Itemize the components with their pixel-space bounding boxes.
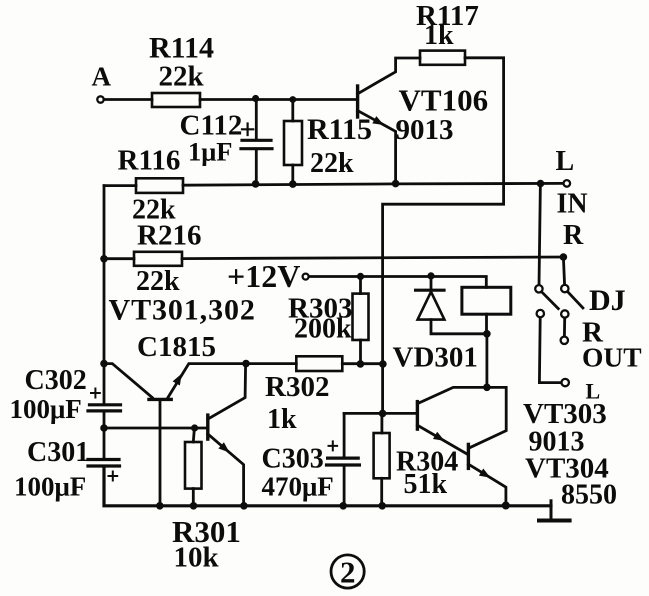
svg-text:R: R — [563, 220, 584, 251]
svg-text:R116: R116 — [118, 145, 181, 177]
svg-text:DJ: DJ — [589, 284, 626, 317]
svg-text:L: L — [556, 146, 575, 177]
svg-text:1μF: 1μF — [188, 137, 232, 167]
svg-text:R216: R216 — [137, 220, 201, 252]
svg-text:C301: C301 — [27, 437, 89, 468]
svg-text:10k: 10k — [174, 542, 220, 574]
svg-text:51k: 51k — [404, 469, 448, 500]
svg-text:8550: 8550 — [561, 480, 617, 511]
svg-text:R115: R115 — [307, 113, 372, 146]
svg-text:470μF: 470μF — [262, 472, 334, 502]
svg-text:100μF: 100μF — [10, 394, 82, 424]
svg-text:VD301: VD301 — [393, 342, 478, 374]
svg-text:+12V: +12V — [227, 258, 300, 294]
svg-text:22k: 22k — [159, 61, 205, 93]
svg-text:22k: 22k — [136, 266, 180, 297]
svg-text:IN: IN — [557, 189, 588, 220]
svg-text:1k: 1k — [424, 20, 454, 51]
svg-text:A: A — [92, 62, 112, 92]
svg-text:R302: R302 — [265, 371, 329, 403]
svg-text:C303: C303 — [262, 444, 324, 475]
svg-text:22k: 22k — [310, 148, 354, 179]
svg-text:VT303: VT303 — [523, 398, 607, 430]
svg-text:VT301,302: VT301,302 — [109, 294, 256, 327]
svg-text:VT106: VT106 — [399, 83, 489, 118]
svg-text:2: 2 — [340, 555, 356, 590]
svg-text:C1815: C1815 — [137, 331, 216, 363]
svg-text:C302: C302 — [25, 365, 87, 396]
svg-text:1k: 1k — [267, 404, 297, 435]
svg-text:9013: 9013 — [396, 114, 454, 146]
svg-text:OUT: OUT — [582, 342, 642, 373]
svg-text:200k: 200k — [294, 314, 352, 345]
svg-text:100μF: 100μF — [14, 472, 86, 502]
